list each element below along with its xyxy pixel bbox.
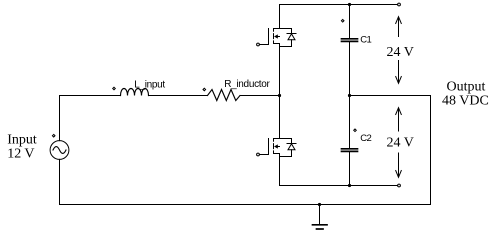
node: junction dot top rail C1 (348, 3, 351, 6)
arrow down (lower 24 V) (396, 153, 402, 177)
capacitor C2 (342, 96, 358, 186)
svg-text:C1: C1 (360, 35, 371, 46)
wire: source bottom to bottom rail (59, 159, 61, 204)
node: output + terminal circle (398, 3, 401, 6)
wire: resistor to MOSFET midpoint (240, 95, 280, 97)
MOSFET Q2 (bottom) (257, 96, 296, 186)
ground (313, 203, 328, 229)
inductor L_input (121, 89, 149, 96)
svg-text:Output: Output (447, 80, 486, 95)
arrow down (upper 24 V) (396, 61, 402, 84)
wire: top rail (280, 4, 398, 6)
node marker: inductor left (113, 87, 116, 90)
node: junction dot MOSFET midpoint (278, 94, 281, 97)
svg-text:24 V: 24 V (387, 136, 414, 151)
wire: main rail from source top corner to inductor (60, 96, 121, 141)
svg-text:24 V: 24 V (387, 45, 414, 60)
node marker: source plus (52, 134, 55, 137)
node: junction dot caps midpoint (348, 94, 351, 97)
svg-text:L_input: L_input (134, 80, 165, 91)
svg-text:12 V: 12 V (7, 147, 34, 162)
wire: output minus rail (280, 185, 398, 187)
svg-text:48 VDC: 48 VDC (442, 94, 489, 109)
wire: inductor to resistor (149, 95, 208, 97)
node marker: C2 top (354, 129, 357, 132)
resistor R_inductor (208, 90, 241, 101)
capacitor C1 (342, 5, 358, 96)
node: output - terminal circle (398, 184, 401, 187)
svg-text:C2: C2 (360, 133, 371, 144)
svg-text:Input: Input (7, 133, 37, 148)
arrow up (upper 24 V) (396, 17, 402, 37)
svg-text:R_inductor: R_inductor (224, 79, 270, 90)
node marker: resistor left (203, 88, 206, 91)
wire: caps midpoint to right edge (350, 95, 431, 97)
node: junction dot C2 bottom (348, 184, 351, 187)
voltage source V input (50, 141, 69, 160)
arrow up (lower 24 V) (396, 108, 402, 131)
wire: right edge vertical (430, 96, 432, 205)
MOSFET Q1 (top) (257, 5, 296, 96)
node marker: C1 top (341, 20, 344, 23)
wire: bottom rail (60, 204, 431, 206)
